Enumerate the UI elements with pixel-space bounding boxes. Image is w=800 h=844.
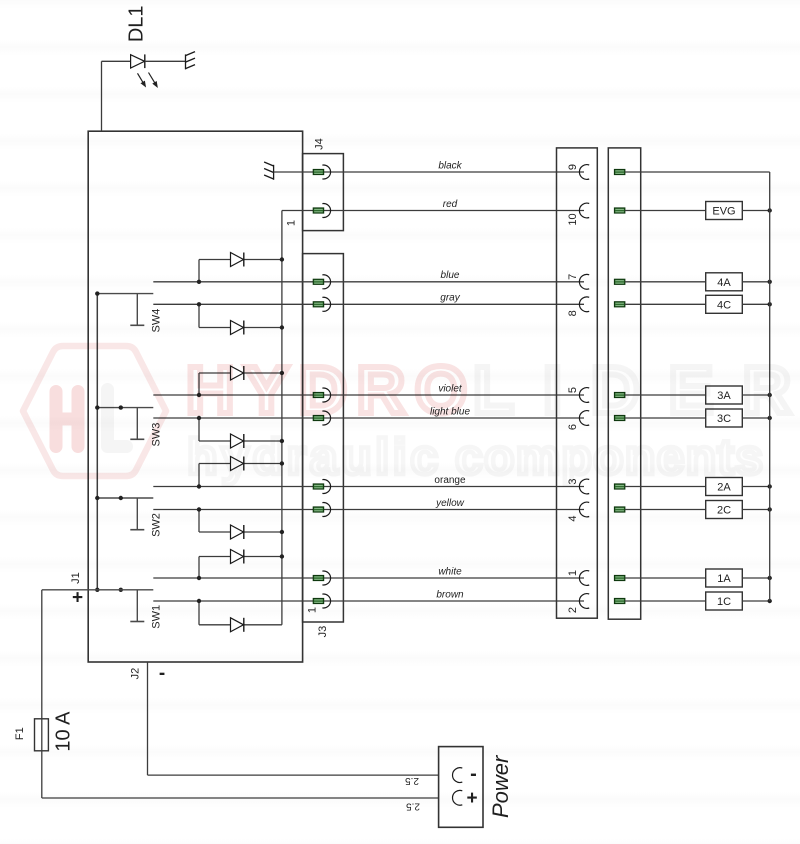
label wire black: [438, 160, 462, 171]
terminal box 1A: [706, 569, 743, 587]
pin J4 red: [313, 204, 330, 218]
pin J3 gray: [313, 297, 330, 311]
label wire brown: [436, 589, 464, 600]
label wire orange: [434, 475, 466, 486]
wire diode bus vertical: [281, 211, 283, 625]
pin J3 orange: [313, 480, 330, 494]
label SW1: [151, 605, 163, 629]
socket X1 pin 6: [579, 411, 589, 426]
wire right bus vertical: [769, 172, 771, 601]
junction SW3 bus: [95, 405, 99, 409]
diode D6: [199, 510, 282, 540]
wire 2A right: [742, 486, 769, 488]
junction D4 anode: [197, 416, 201, 420]
label Power: [488, 754, 513, 818]
wire white: [153, 577, 584, 579]
label J3 pin 1: [307, 607, 319, 613]
junction D5 anode: [197, 484, 201, 488]
pin X2 2: [614, 598, 625, 603]
junction D2 anode: [197, 302, 201, 306]
socket X1 pin 10: [579, 203, 589, 218]
junction D1 cathode: [280, 257, 284, 261]
wire red: [282, 210, 584, 212]
label X1 pin 3: [567, 478, 579, 484]
junction EVG bus: [768, 208, 772, 212]
label X1 pin 10: [567, 213, 579, 225]
label Power minus: [470, 763, 477, 785]
wire brown: [153, 600, 584, 602]
wire 1C left: [625, 600, 706, 602]
socket X1 pin 3: [579, 479, 589, 494]
label J1 plus: [72, 588, 83, 609]
ground chassis top: [186, 52, 196, 70]
junction D7 anode: [197, 576, 201, 580]
socket X1 pin 8: [579, 297, 589, 312]
junction D3 cathode: [280, 371, 284, 375]
junction D7 cathode: [280, 554, 284, 558]
socket Power minus: [452, 768, 462, 783]
junction SW1 bus: [95, 588, 99, 592]
connector X1 strip: [557, 148, 598, 618]
junction D3 anode: [197, 393, 201, 397]
label wire gray: [440, 293, 460, 304]
junction D2 cathode: [280, 325, 284, 329]
control unit box U1: [88, 131, 302, 662]
wire 3A right: [742, 394, 769, 396]
socket X1 pin 5: [579, 388, 589, 403]
label X1 pin 8: [567, 310, 579, 316]
wire 1A right: [742, 577, 769, 579]
label X1 pin 9: [567, 164, 579, 170]
wire light blue: [153, 417, 584, 419]
label wire violet: [438, 383, 463, 394]
wire violet: [153, 394, 584, 396]
pin J3 white: [313, 571, 330, 585]
label SW3: [151, 423, 163, 447]
connector Power: [439, 747, 483, 828]
svg-text:LIDER: LIDER: [473, 353, 791, 428]
wire DL1 anode: [102, 61, 131, 131]
junction D1 anode: [197, 280, 201, 284]
junction 3A bus: [768, 393, 772, 397]
diode D5: [199, 457, 282, 487]
diode D3: [199, 366, 282, 395]
junction SW1 mid: [119, 588, 123, 592]
junction D8 anode: [197, 599, 201, 603]
wire J2 minus: [148, 662, 439, 775]
switch SW2: [97, 498, 153, 530]
terminal box 2A: [706, 478, 743, 496]
pin X2 8: [614, 302, 625, 307]
terminal box 1C: [706, 592, 743, 610]
wire orange: [153, 486, 584, 488]
junction 1C bus: [768, 599, 772, 603]
label wire blue: [441, 270, 460, 281]
wire J1 plus input: [42, 589, 153, 591]
wire yellow: [153, 509, 584, 511]
junction 2A bus: [768, 484, 772, 488]
label SW2: [151, 513, 163, 537]
wire 4C left: [625, 303, 706, 305]
label J2: [130, 668, 142, 680]
svg-text:components: components: [455, 429, 763, 485]
junction D5 cathode: [280, 461, 284, 465]
label X1 pin 2: [567, 607, 579, 613]
wire 2C left: [625, 509, 706, 511]
wire black to bus: [625, 171, 770, 173]
socket X1 pin 9: [579, 165, 589, 180]
label wire white: [438, 566, 462, 577]
wire 3C left: [625, 417, 706, 419]
diode D7: [199, 550, 282, 579]
junction D4 cathode: [280, 439, 284, 443]
pin J3 violet: [313, 388, 330, 402]
wire DL1 cathode: [145, 60, 186, 62]
terminal box 3A: [706, 386, 743, 404]
pin X2 4: [614, 507, 625, 512]
socket X1 pin 1: [579, 571, 589, 586]
wire 1C right: [742, 600, 769, 602]
junction SW3 mid: [119, 405, 123, 409]
pin X2 5: [614, 392, 625, 397]
label X1 pin 7: [567, 274, 579, 280]
pin J3 light blue: [313, 411, 330, 425]
connector J4: [303, 154, 344, 231]
junction 4C bus: [768, 302, 772, 306]
wire 3A left: [625, 394, 706, 396]
wire 4C right: [742, 303, 769, 305]
ground chassis J4: [264, 162, 274, 180]
junction D6 cathode: [280, 530, 284, 534]
diode D8: [199, 601, 282, 632]
wire EVG left: [625, 210, 706, 212]
label DL1: [126, 5, 148, 42]
wire 2C right: [742, 509, 769, 511]
label wire 2.5 plus: [406, 800, 420, 811]
wire black: [274, 171, 584, 173]
wire 4A left: [625, 281, 706, 283]
junction SW4 bus: [95, 291, 99, 295]
svg-text:HYDRO: HYDRO: [186, 353, 467, 428]
wire 1A left: [625, 577, 706, 579]
label X1 pin 4: [567, 515, 579, 521]
label F1: [14, 727, 26, 740]
label J2 minus: [159, 663, 165, 684]
pin J3 brown: [313, 594, 330, 608]
pin X2 6: [614, 415, 625, 420]
label J4: [314, 138, 326, 150]
terminal box 3C: [706, 409, 743, 427]
switch SW3: [97, 408, 153, 440]
terminal box 4A: [706, 273, 743, 291]
socket X1 pin 2: [579, 594, 589, 609]
pin X2 7: [614, 279, 625, 284]
socket X1 pin 4: [579, 502, 589, 517]
junction SW2 mid: [119, 496, 123, 500]
fuse F1: [35, 719, 49, 751]
connector J3: [303, 254, 344, 622]
wire 4A right: [742, 281, 769, 283]
socket X1 pin 7: [579, 274, 589, 289]
pin J3 yellow: [313, 503, 330, 517]
wire switch common bus: [96, 294, 98, 590]
LED DL1: [131, 54, 158, 87]
pin J4 black: [313, 165, 330, 179]
diode D1: [199, 253, 282, 282]
label F1 value 10 A: [53, 711, 75, 752]
wire F1 bottom to power: [42, 751, 439, 798]
label J4 pin 1: [286, 220, 298, 226]
terminal box 2C: [706, 501, 743, 519]
label wire light blue: [430, 406, 470, 417]
svg-text:hydraulic: hydraulic: [187, 429, 438, 485]
wire EVG right: [742, 210, 769, 212]
socket Power plus: [452, 790, 462, 805]
label Power plus: [466, 788, 477, 809]
junction 4A bus: [768, 280, 772, 284]
label J1: [70, 572, 82, 584]
connector X2 strip: [608, 148, 640, 619]
diode D2: [199, 304, 282, 334]
switch SW4: [97, 294, 153, 326]
diode D4: [199, 418, 282, 448]
label X1 pin 6: [567, 424, 579, 430]
wire 3C right: [742, 417, 769, 419]
junction 2C bus: [768, 507, 772, 511]
pin J3 blue: [313, 275, 330, 289]
junction 3C bus: [768, 416, 772, 420]
wire F1 top: [41, 590, 43, 719]
junction D6 anode: [197, 507, 201, 511]
pin X2 10: [614, 208, 625, 213]
terminal box 4C: [706, 295, 743, 313]
wire 2A left: [625, 486, 706, 488]
pin X2 1: [614, 575, 625, 580]
label wire red: [443, 199, 458, 210]
label X1 pin 5: [567, 387, 579, 393]
label J3: [317, 626, 329, 638]
wire gray: [153, 303, 584, 305]
label wire yellow: [435, 498, 465, 509]
wire blue: [153, 281, 584, 283]
pin X2 3: [614, 484, 625, 489]
junction SW2 bus: [95, 496, 99, 500]
switch SW1: [130, 590, 144, 622]
junction 1A bus: [768, 576, 772, 580]
pin X2 9: [614, 169, 625, 174]
label X1 pin 1: [567, 570, 579, 576]
label wire 2.5 minus: [405, 775, 419, 786]
terminal box EVG: [706, 202, 743, 220]
label SW4: [151, 309, 163, 333]
